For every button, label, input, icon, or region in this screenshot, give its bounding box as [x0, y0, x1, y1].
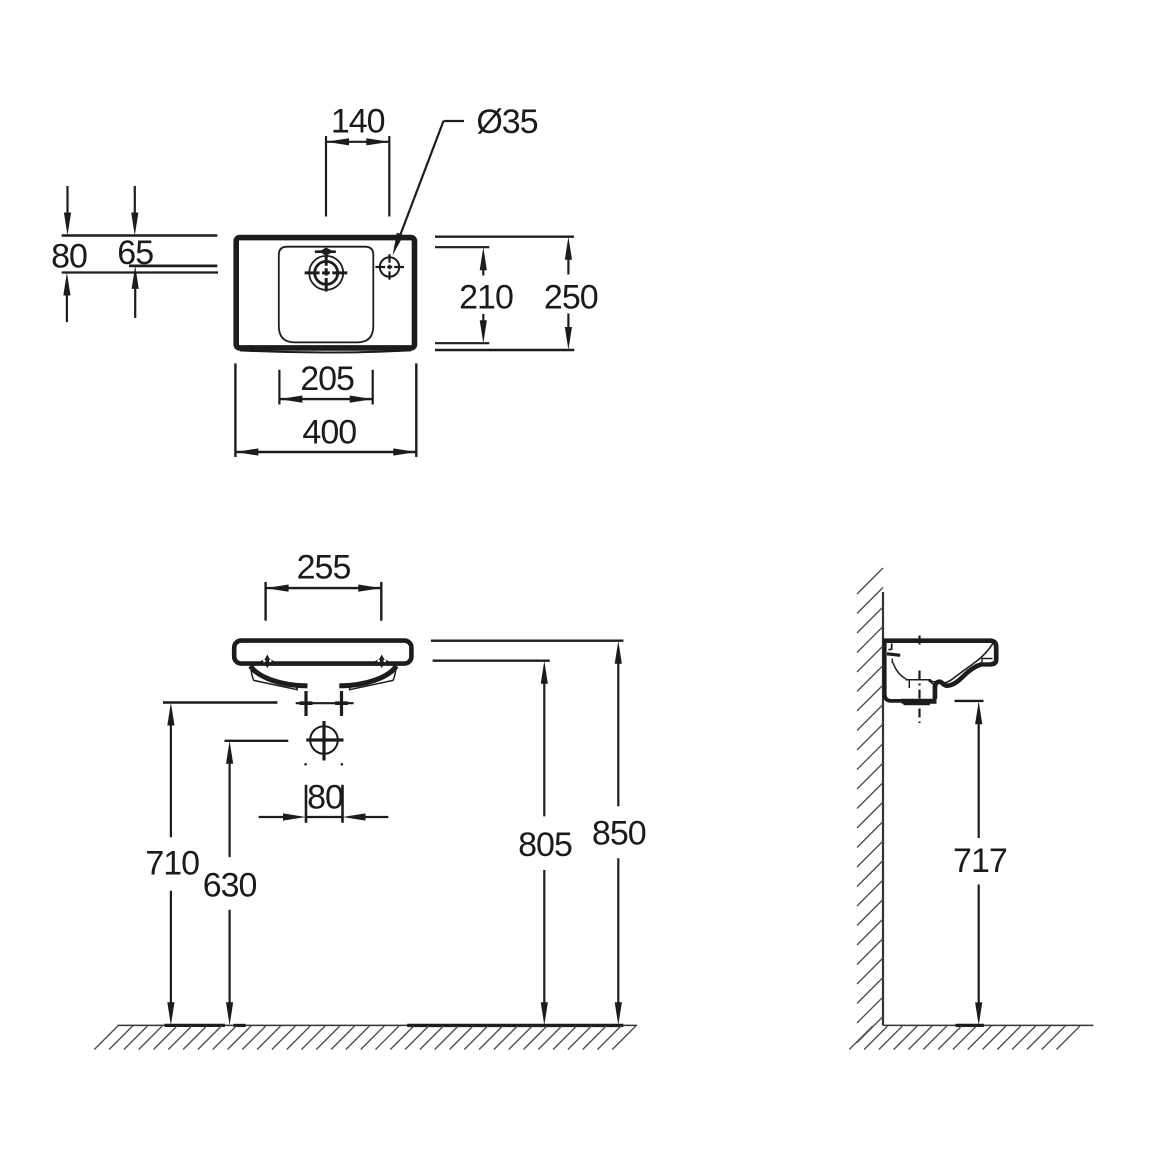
side view: left edge and bottom	[885, 639, 935, 701]
side view: overflow dash	[887, 654, 900, 656]
dim 805 extension line	[433, 660, 550, 662]
front view: floor hatching	[94, 1026, 636, 1050]
dim 80 dimension line and arrows	[306, 816, 343, 818]
right dims: bowl top extension line	[435, 246, 489, 248]
svg-text:710: 710	[145, 845, 199, 883]
side view: wall line	[882, 592, 884, 1025]
tap hole 35mm circle	[380, 257, 399, 276]
dim 717 dimension line	[975, 701, 982, 724]
side view: faucet centerline through deck (dash-dot)	[918, 636, 920, 649]
dim 80 (bolt spacing) extension lines	[305, 785, 308, 823]
front view: bolt centerline dots	[304, 763, 307, 766]
svg-text:80: 80	[307, 779, 343, 817]
svg-text:140: 140	[331, 103, 385, 141]
front view: left bowl underside	[251, 666, 308, 686]
side view: floor line	[883, 1024, 1094, 1026]
svg-text:400: 400	[302, 413, 356, 451]
dim 850 dimension line	[615, 641, 622, 664]
svg-text:250: 250	[544, 279, 598, 317]
dim 630 extension line	[225, 740, 289, 742]
bottom dims: right extension line	[415, 363, 417, 457]
left dims: back edge extension line	[62, 234, 218, 236]
svg-text:255: 255	[297, 549, 351, 587]
dim 80 down arrow	[66, 186, 68, 217]
overflow slot tick	[315, 250, 336, 253]
left dims: 80 line (faucet axis)	[62, 271, 218, 273]
leader arrowhead	[393, 233, 404, 256]
side view: overflow step	[891, 644, 893, 650]
front view: basin slab	[234, 641, 411, 664]
side view: bowl interior left curve	[893, 663, 931, 680]
front view: right fixing hole marker	[375, 655, 389, 669]
svg-text:205: 205	[300, 360, 354, 398]
side view: inner bowl line	[929, 644, 993, 686]
svg-text:717: 717	[953, 842, 1007, 880]
dim 80 up arrow	[63, 273, 70, 296]
overflow slot diamond	[319, 248, 334, 256]
right dims: front edge extension line	[435, 349, 574, 351]
side view: wall hatching	[857, 568, 883, 1043]
faucet hole outer circle	[309, 256, 343, 290]
svg-text:80: 80	[51, 238, 87, 276]
svg-text:65: 65	[117, 234, 153, 272]
tap hole crosshair horizontal (center mark)	[375, 266, 404, 268]
plan view: inner bowl outline	[279, 247, 374, 343]
svg-text:630: 630	[203, 866, 257, 904]
dim 255 dimension line	[266, 587, 382, 589]
dim 850 extension line	[431, 640, 624, 642]
dim 630 dimension line	[226, 741, 233, 764]
floor thick segment under 717	[956, 1024, 984, 1027]
front view: trap crosshair vertical	[322, 721, 325, 761]
leader line to tap hole	[444, 120, 465, 122]
front view: drain trap circle	[310, 726, 338, 754]
dim 210 arrows	[480, 247, 487, 270]
left dims: 65 line (tap hole axis)	[129, 264, 217, 267]
faucet crosshair horizontal (center mark)	[305, 271, 348, 274]
side view: drain sump left wall	[908, 680, 910, 688]
front view: trap crosshair horizontal	[306, 738, 343, 741]
dim 65 up arrow	[132, 266, 139, 289]
ground line thick segment under 805/850	[407, 1024, 623, 1027]
front view: right fixing bolt	[340, 691, 343, 716]
front view: right bowl underside	[339, 666, 396, 686]
front view: left fixing bolt	[304, 691, 307, 716]
front view: bolt axis line	[296, 702, 354, 704]
svg-text:850: 850	[592, 814, 646, 852]
side view: drain centerline (dash-dot)	[918, 671, 920, 724]
dim 140 dimension line	[326, 141, 389, 143]
front view: left rim flange	[251, 668, 298, 690]
dim 140 extension lines	[325, 136, 327, 217]
side view: overflow lower line	[891, 659, 893, 664]
faucet hole inner circle	[315, 261, 338, 284]
dim 710 dimension line	[167, 703, 174, 726]
right dims: bowl bottom extension line	[435, 342, 489, 344]
tap hole crosshair vertical (center mark)	[388, 254, 390, 280]
front view: right rim flange	[350, 668, 397, 690]
dim 205 dimension line	[279, 398, 372, 400]
dim 400 dimension line	[235, 451, 416, 453]
dim 65 down arrow	[134, 186, 136, 217]
ground line thick segment under 710/630	[165, 1024, 225, 1027]
dim 805 dimension line	[541, 661, 548, 684]
plan view: basin outer rim	[236, 238, 414, 348]
dim 205 extension lines	[278, 370, 280, 405]
plan view: curved front edge	[240, 350, 411, 352]
front view: ground line	[118, 1024, 638, 1026]
dim 710 extension line	[163, 701, 277, 703]
side view: floor hatching	[849, 1026, 1080, 1050]
svg-text:805: 805	[518, 826, 572, 864]
dim 250 arrows	[565, 237, 572, 260]
dim 255 extension lines	[264, 582, 266, 621]
dim 717 extension line	[955, 700, 984, 702]
side view: bottom thick edge	[902, 699, 937, 704]
bottom dims: left extension line	[234, 363, 236, 457]
side view: rim drip groove	[982, 658, 991, 662]
faucet crosshair vertical (center mark)	[325, 252, 328, 291]
side view: basin outer profile (top slab, front rim, underside ogee)	[884, 641, 996, 699]
side view: drip groove outline	[982, 659, 993, 663]
svg-text:210: 210	[459, 279, 513, 317]
svg-text:Ø35: Ø35	[476, 103, 537, 141]
right dims: back edge extension line	[435, 235, 574, 237]
front view: left fixing hole marker	[260, 655, 274, 669]
side view: bottom lip	[904, 702, 930, 706]
